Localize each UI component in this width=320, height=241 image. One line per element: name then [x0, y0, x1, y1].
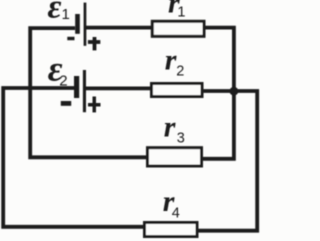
svg-text:2: 2	[59, 73, 67, 90]
svg-text:ε: ε	[48, 0, 62, 26]
svg-text:1: 1	[62, 6, 70, 23]
svg-text:3: 3	[177, 130, 185, 146]
svg-text:4: 4	[172, 205, 180, 221]
svg-text:1: 1	[177, 5, 185, 21]
svg-text:r: r	[165, 44, 177, 77]
svg-text:r: r	[164, 111, 176, 144]
svg-text:2: 2	[176, 63, 184, 79]
